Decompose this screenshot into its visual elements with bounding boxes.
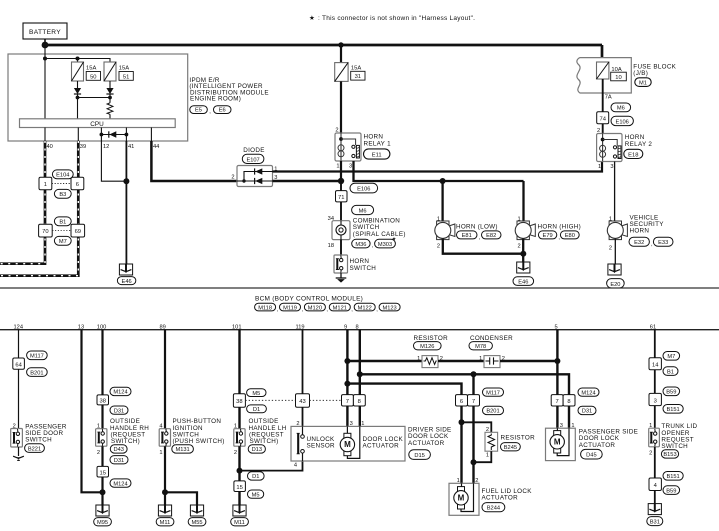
svg-text:E79: E79 — [543, 233, 553, 239]
svg-text:15A: 15A — [119, 66, 129, 72]
connector 38 M124/D31 — [97, 387, 131, 414]
wire 14 to 3 — [654, 370, 656, 394]
svg-text:14: 14 — [652, 363, 659, 369]
node diode join left — [76, 96, 80, 100]
svg-text:E18: E18 — [628, 152, 638, 158]
connector E104 oval — [52, 170, 73, 179]
connector 6 mid pair — [456, 395, 468, 406]
node fuse31 junction — [338, 42, 343, 47]
svg-text:SWITCH: SWITCH — [350, 265, 377, 272]
svg-text:M117: M117 — [486, 390, 500, 396]
wire 38 to handle LH — [238, 407, 240, 429]
svg-text:M124: M124 — [113, 481, 127, 487]
wire horn high feed — [522, 181, 524, 223]
wire 74 to relay2 — [602, 124, 604, 134]
wire pin 100 — [101, 330, 103, 395]
wire trunk switch to 4 — [654, 447, 656, 478]
svg-text:74: 74 — [599, 117, 606, 123]
svg-text:E81: E81 — [462, 233, 472, 239]
svg-text:B151: B151 — [666, 407, 679, 413]
note: connector not shown in harness layout — [309, 15, 475, 22]
ground door switch — [13, 456, 24, 460]
wire pin 9 — [346, 330, 348, 395]
svg-text:★: ★ — [309, 15, 315, 22]
wire diode join — [78, 97, 111, 99]
svg-text:8: 8 — [358, 399, 361, 405]
svg-text:1: 1 — [159, 450, 162, 456]
svg-text:HORN (LOW): HORN (LOW) — [456, 223, 498, 230]
svg-text:E82: E82 — [486, 233, 496, 239]
wire handle LH to connector 15 — [238, 446, 240, 481]
connector 7 left pair — [342, 395, 354, 406]
wire relay2 pin3 to security horn — [614, 162, 616, 223]
svg-text:D45: D45 — [586, 453, 596, 459]
wire battery bus — [45, 44, 602, 47]
horn relay 1 — [335, 127, 391, 169]
wire 71 to combination switch — [340, 202, 342, 221]
wire fuse10 to connector 74 — [602, 79, 604, 112]
wire left branch to CPU — [77, 98, 79, 119]
connector 7 right pair — [551, 395, 563, 406]
svg-text:E46: E46 — [122, 279, 132, 285]
wire fuse31 feed — [340, 45, 342, 63]
svg-text:M118: M118 — [258, 305, 272, 311]
svg-text:HORN: HORN — [630, 228, 650, 235]
svg-text:1: 1 — [598, 164, 601, 170]
svg-text:CONDENSER: CONDENSER — [470, 335, 513, 342]
svg-text:61: 61 — [650, 324, 656, 330]
wire relay1 pin1 down — [340, 161, 342, 181]
svg-text:ACTUATOR: ACTUATOR — [482, 495, 519, 502]
svg-text:E11: E11 — [372, 153, 382, 159]
svg-text:6: 6 — [460, 399, 463, 405]
svg-text:40: 40 — [47, 144, 53, 150]
svg-text:RESISTOR: RESISTOR — [414, 335, 449, 342]
svg-text:B153: B153 — [663, 452, 676, 458]
svg-text:70: 70 — [42, 229, 48, 235]
svg-text:7: 7 — [472, 399, 475, 405]
svg-text:E32: E32 — [634, 240, 644, 246]
svg-text:SWITCH: SWITCH — [25, 437, 52, 444]
wire horn switch to ground — [340, 273, 342, 278]
wire tap to resistor B245 — [462, 422, 492, 432]
fuse block J/B M1 — [577, 58, 677, 93]
node diode join right — [108, 96, 112, 100]
svg-text:M5: M5 — [252, 492, 260, 498]
svg-text:RELAY 1: RELAY 1 — [364, 141, 392, 148]
wire pin 8 — [359, 330, 361, 395]
svg-text:1: 1 — [336, 164, 339, 170]
wire fuse50 stub — [77, 59, 79, 63]
svg-text:2: 2 — [609, 245, 612, 251]
fuse 51 15A — [104, 62, 133, 81]
svg-text:100: 100 — [97, 324, 107, 330]
section separator — [0, 287, 719, 289]
wire CPU pin 44 stub — [150, 128, 152, 142]
svg-text:: This connector is not shown: : This connector is not shown in "Harnes… — [318, 15, 475, 22]
connector M120 oval — [304, 303, 328, 313]
svg-text:2: 2 — [649, 450, 652, 456]
svg-text:B245: B245 — [504, 445, 517, 451]
fuse 31 15A — [335, 63, 365, 82]
svg-text:M78: M78 — [475, 344, 486, 350]
connector M119 oval — [280, 303, 304, 313]
node resistor B245 top tap — [459, 419, 465, 425]
node relay1 coil junction — [338, 178, 344, 184]
svg-text:3: 3 — [349, 164, 352, 170]
svg-text:E46: E46 — [518, 280, 528, 286]
svg-text:1: 1 — [486, 453, 489, 459]
connector 43 — [296, 394, 310, 408]
connector 71 E106/M6 — [336, 183, 378, 214]
connector M124 oval right — [578, 388, 599, 396]
svg-text:64: 64 — [15, 362, 22, 368]
node horn low tap — [440, 178, 446, 184]
wire 64 to door switch — [18, 369, 20, 428]
vehicle security horn E32/E33 — [607, 214, 673, 251]
connector M7 oval — [54, 236, 71, 245]
wire 3 to trunk switch — [654, 406, 656, 429]
svg-text:M123: M123 — [382, 305, 396, 311]
node battery junction — [42, 42, 49, 49]
wire bus3 run — [347, 384, 461, 395]
svg-text:B1: B1 — [667, 369, 674, 375]
svg-text:1: 1 — [479, 356, 482, 362]
connector B1/M7 mating line — [52, 230, 71, 232]
wire 4 to ground B31 — [654, 491, 656, 505]
wire pin 12 run — [101, 141, 126, 181]
ground M11 left — [156, 505, 174, 526]
wire relay1 pin3 to horns — [354, 161, 524, 181]
connector B201 oval mid — [483, 406, 504, 414]
wire pin 89 — [164, 330, 166, 429]
wire CPU pin 39 stub — [77, 128, 79, 142]
svg-text:SENSOR: SENSOR — [307, 443, 336, 450]
wire battery stub — [44, 39, 46, 45]
wire 15 to ground M95 — [101, 477, 103, 505]
svg-text:124: 124 — [14, 324, 24, 330]
svg-text:(PUSH SWITCH): (PUSH SWITCH) — [173, 438, 225, 445]
svg-text:7: 7 — [346, 399, 349, 405]
svg-text:D31: D31 — [582, 409, 592, 415]
connector mating dotted line 43-7 — [310, 399, 342, 401]
connector E5 — [190, 106, 212, 116]
svg-text:SWITCH): SWITCH) — [111, 438, 140, 445]
svg-text:101: 101 — [232, 324, 242, 330]
svg-text:8: 8 — [356, 324, 359, 330]
connector mating dotted line 38-43 — [245, 399, 295, 401]
svg-text:M122: M122 — [358, 305, 372, 311]
IPDM E/R box — [8, 54, 188, 141]
svg-text:SWITCH: SWITCH — [661, 443, 688, 450]
diode under fuse 50 — [74, 81, 81, 98]
connector D31 oval right — [578, 406, 596, 414]
BCM edge line — [0, 329, 719, 331]
connector B3 oval — [54, 189, 71, 198]
ground E46 horns — [513, 262, 534, 286]
svg-text:M6: M6 — [617, 106, 625, 112]
wire 43 to unlock sensor — [302, 407, 304, 426]
svg-text:2: 2 — [97, 450, 100, 456]
battery B1 — [23, 23, 67, 39]
svg-text:M7: M7 — [59, 239, 67, 245]
wire resistor to condenser — [438, 360, 484, 362]
svg-text:HORN: HORN — [625, 134, 645, 141]
wire connector7 to actuator pin3 — [346, 406, 348, 426]
svg-text:M95: M95 — [97, 520, 108, 526]
svg-text:M124: M124 — [113, 390, 127, 396]
svg-text:M124: M124 — [581, 390, 595, 396]
svg-text:10: 10 — [615, 75, 621, 81]
svg-text:51: 51 — [123, 74, 129, 80]
svg-text:E104: E104 — [56, 173, 69, 179]
svg-text:ENGINE ROOM): ENGINE ROOM) — [190, 96, 241, 103]
wire CPU pin 40 stub — [44, 128, 46, 142]
node fuse feed junction — [43, 57, 47, 61]
wire bus1 to resistor — [347, 360, 422, 362]
svg-text:119: 119 — [296, 324, 305, 330]
svg-text:B244: B244 — [487, 506, 500, 512]
connector E6 — [214, 106, 232, 114]
svg-text:M36: M36 — [355, 242, 366, 248]
resistor B245 — [485, 427, 535, 459]
wire CPU pin 12 stub — [100, 128, 102, 142]
wire horn high to ground junction — [522, 238, 524, 262]
wire fuse31 to relay1 — [340, 81, 342, 133]
connector B1/M7 pin 69 — [71, 224, 85, 237]
svg-text:B59: B59 — [666, 488, 676, 494]
connector E104/B3 mating line — [52, 183, 71, 185]
connector E104/B3 pin 1 — [39, 177, 52, 190]
svg-text:50: 50 — [90, 74, 96, 80]
svg-text:HORN (HIGH): HORN (HIGH) — [538, 223, 582, 230]
wire resistor B245 bottom to junction — [474, 451, 492, 462]
svg-text:RESISTOR: RESISTOR — [501, 434, 536, 441]
push-button ignition switch M131 — [159, 418, 224, 456]
svg-text:41: 41 — [128, 144, 134, 150]
svg-text:E33: E33 — [658, 240, 668, 246]
connector 3 B59/B151 — [649, 387, 683, 413]
svg-text:B59: B59 — [666, 390, 676, 396]
connector 8 right pair — [563, 395, 575, 406]
ground M11 right — [231, 505, 249, 526]
wire connector6 to fuel lid pin1 — [460, 406, 462, 483]
svg-text:7A: 7A — [605, 95, 612, 101]
diode internal between 12 and 41 — [100, 131, 129, 137]
connector M118 oval — [255, 303, 279, 313]
svg-text:B221: B221 — [28, 447, 41, 453]
svg-text:M121: M121 — [333, 305, 347, 311]
svg-text:M55: M55 — [191, 520, 202, 526]
svg-text:BCM (BODY CONTROL MODULE): BCM (BODY CONTROL MODULE) — [255, 296, 363, 303]
svg-text:M117: M117 — [30, 354, 44, 360]
wire pin 40 shielded run — [0, 141, 45, 264]
svg-text:ACTUATOR: ACTUATOR — [408, 440, 445, 447]
node bus2 tap — [357, 371, 363, 377]
svg-text:M119: M119 — [283, 305, 297, 311]
wire pin 101 — [238, 330, 240, 394]
wire bus2 run — [360, 374, 569, 394]
svg-text:3: 3 — [654, 398, 657, 404]
svg-text:69: 69 — [75, 229, 81, 235]
wire diode pin1 to horn relay 2 — [273, 162, 603, 172]
svg-text:E6: E6 — [219, 108, 226, 114]
IPDM E/R label — [189, 77, 268, 103]
ground M95 — [94, 505, 112, 526]
svg-text:E106: E106 — [357, 187, 370, 193]
svg-text:15A: 15A — [351, 65, 361, 71]
svg-text:M5: M5 — [252, 391, 260, 397]
svg-text:12: 12 — [103, 144, 109, 150]
node handle LH / unlock sensor junction — [237, 468, 243, 474]
connector 15 D1/M5 — [234, 472, 264, 499]
condenser M78 — [469, 335, 513, 368]
connector M117 oval mid — [483, 388, 504, 396]
svg-text:B3: B3 — [59, 192, 66, 198]
svg-text:CPU: CPU — [90, 121, 104, 128]
svg-text:(SPIRAL CABLE): (SPIRAL CABLE) — [353, 231, 406, 238]
driver actuator outside label — [408, 427, 452, 460]
svg-text:18: 18 — [328, 243, 334, 249]
node bus1 tap — [344, 358, 350, 364]
node 89 ground junction — [162, 489, 168, 495]
svg-text:3: 3 — [610, 164, 613, 170]
svg-text:ACTUATOR: ACTUATOR — [363, 443, 400, 450]
svg-text:DIODE: DIODE — [243, 147, 264, 154]
wire junction to unlock sensor pin4 — [240, 461, 303, 471]
node horns ground junction — [520, 251, 526, 257]
svg-text:M126: M126 — [420, 344, 434, 350]
svg-text:BATTERY: BATTERY — [29, 29, 61, 36]
wire pin 41 run — [125, 141, 127, 264]
wire condenser to pin5 — [500, 360, 557, 362]
wire combination switch to horn switch — [340, 240, 342, 255]
wire pin 13 run — [82, 330, 103, 493]
svg-text:D15: D15 — [414, 453, 424, 459]
svg-text:15A: 15A — [86, 66, 96, 72]
svg-text:B1: B1 — [59, 220, 66, 226]
svg-text:7: 7 — [555, 399, 558, 405]
svg-text:15: 15 — [99, 470, 105, 476]
connector 15 D31/M124 — [97, 456, 131, 488]
wire bus2 drop to connector 7 — [472, 374, 474, 394]
wire connector8 to pass actuator pin1 — [568, 406, 570, 428]
connector B1 oval — [54, 217, 71, 226]
horn relay 2 — [597, 128, 653, 170]
node fuse50 tap — [76, 57, 80, 61]
connector 7 mid pair — [468, 395, 480, 406]
wire pin 44 run — [151, 141, 237, 181]
wire pin 5 — [556, 330, 558, 395]
svg-text:44: 44 — [153, 144, 159, 150]
wire connector8 to actuator pin1 — [359, 406, 361, 426]
wire fuse block feed — [601, 45, 604, 62]
svg-text:8: 8 — [567, 399, 570, 405]
horn (high) E79/E80 — [515, 217, 581, 250]
svg-text:5: 5 — [555, 324, 558, 330]
svg-text:71: 71 — [338, 195, 344, 201]
wire battery feed inside IPDM — [44, 45, 46, 119]
ground E20 — [607, 264, 625, 288]
connector 38 M5/D1 — [233, 389, 266, 413]
svg-text:38: 38 — [236, 399, 242, 405]
fuse 50 15A — [72, 62, 101, 81]
connector 14 M7/B1 — [649, 352, 680, 376]
connector M123 oval — [379, 303, 400, 311]
svg-text:89: 89 — [160, 324, 166, 330]
wire pin 119 — [302, 330, 304, 394]
svg-text:ACTUATOR: ACTUATOR — [579, 442, 616, 449]
wire handle RH to connector 15 — [101, 446, 103, 466]
svg-text:B31: B31 — [650, 520, 660, 526]
wire push switch to ground M11 — [164, 446, 166, 505]
passenger side door lock actuator D45 — [546, 423, 639, 461]
wire branch to ground M55 — [165, 492, 197, 505]
node pin5 bus1 junction — [554, 358, 560, 364]
trunk lid opener request switch B153 — [649, 423, 698, 458]
svg-text:M131: M131 — [175, 447, 189, 453]
svg-text:D1: D1 — [253, 407, 260, 413]
wire door switch to ground — [18, 447, 20, 456]
resistor M126 — [414, 335, 449, 368]
svg-text:2: 2 — [234, 450, 237, 456]
svg-text:6: 6 — [76, 182, 79, 188]
svg-text:E80: E80 — [565, 233, 575, 239]
svg-text:D1: D1 — [252, 474, 259, 480]
connector M122 oval — [354, 303, 378, 313]
svg-text:M11: M11 — [160, 520, 171, 526]
svg-text:1: 1 — [417, 356, 420, 362]
svg-text:D31: D31 — [114, 408, 124, 414]
svg-text:D31: D31 — [114, 458, 124, 464]
svg-text:2: 2 — [518, 244, 521, 250]
ground horn switch — [336, 278, 347, 283]
svg-text:M7: M7 — [667, 354, 675, 360]
wire junction to connector 71 — [340, 181, 342, 191]
svg-text:15: 15 — [236, 485, 242, 491]
diode assembly E107 — [231, 147, 277, 187]
svg-text:E107: E107 — [246, 157, 259, 163]
horn (low) E81/E82 — [435, 217, 501, 250]
svg-text:9: 9 — [344, 324, 347, 330]
svg-text:RELAY 2: RELAY 2 — [625, 141, 653, 148]
node resistor B245 bottom tap — [471, 459, 477, 465]
driver side door lock actuator D15 — [291, 421, 405, 468]
svg-text:2: 2 — [231, 175, 234, 181]
fuel lid lock actuator B244 — [449, 478, 532, 516]
connector M121 oval — [329, 303, 353, 313]
node bus2 drop junction — [471, 371, 477, 377]
svg-text:B201: B201 — [486, 409, 499, 415]
connector 74 M6/E106 — [597, 103, 634, 126]
svg-text:M11: M11 — [234, 520, 245, 526]
wire connector7 to pass actuator pin3 — [556, 406, 558, 428]
outside handle RH request switch D43 — [96, 418, 150, 456]
connector B1/M7 pin 70 — [39, 224, 53, 237]
svg-text:M303: M303 — [378, 242, 392, 248]
svg-text:M1: M1 — [639, 81, 647, 87]
wire fuse block internal to fuse — [601, 61, 604, 63]
svg-text:E106: E106 — [616, 119, 629, 125]
CPU box — [20, 119, 176, 128]
node 13/100 junction — [100, 489, 106, 495]
svg-text:43: 43 — [299, 399, 305, 405]
svg-text:D13: D13 — [252, 447, 262, 453]
svg-text:B151: B151 — [666, 474, 679, 480]
wire pin 61 — [654, 330, 656, 358]
svg-text:M6: M6 — [359, 208, 367, 214]
svg-text:31: 31 — [355, 74, 361, 80]
